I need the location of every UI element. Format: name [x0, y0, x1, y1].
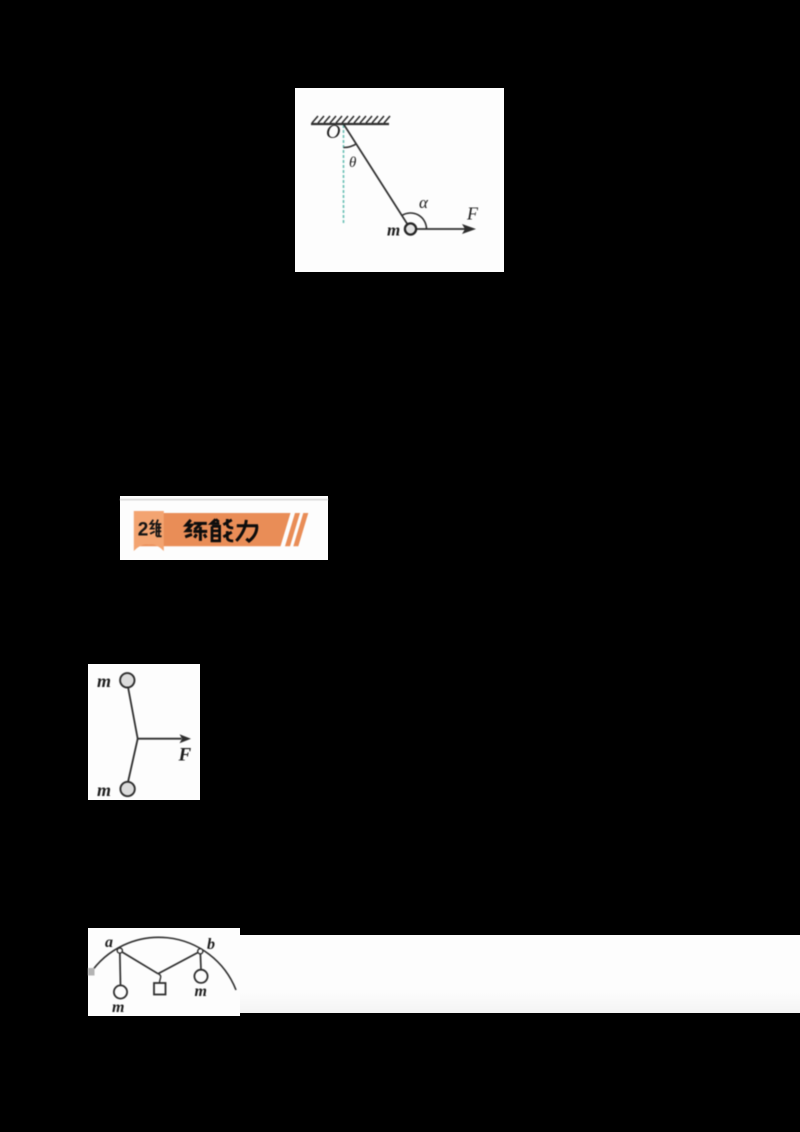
- svg-text:F: F: [466, 204, 479, 224]
- svg-text:m: m: [97, 671, 111, 691]
- svg-text:α: α: [419, 193, 429, 212]
- svg-text:m: m: [387, 221, 400, 240]
- svg-text:O: O: [326, 121, 340, 143]
- svg-text:b: b: [207, 936, 215, 953]
- svg-text:2: 2: [138, 519, 149, 540]
- svg-text:F: F: [178, 745, 192, 766]
- svg-text:θ: θ: [349, 155, 357, 171]
- svg-text:a: a: [105, 934, 113, 951]
- svg-text:m: m: [112, 999, 124, 1016]
- svg-text:m: m: [97, 780, 111, 800]
- svg-text:m: m: [195, 983, 207, 1000]
